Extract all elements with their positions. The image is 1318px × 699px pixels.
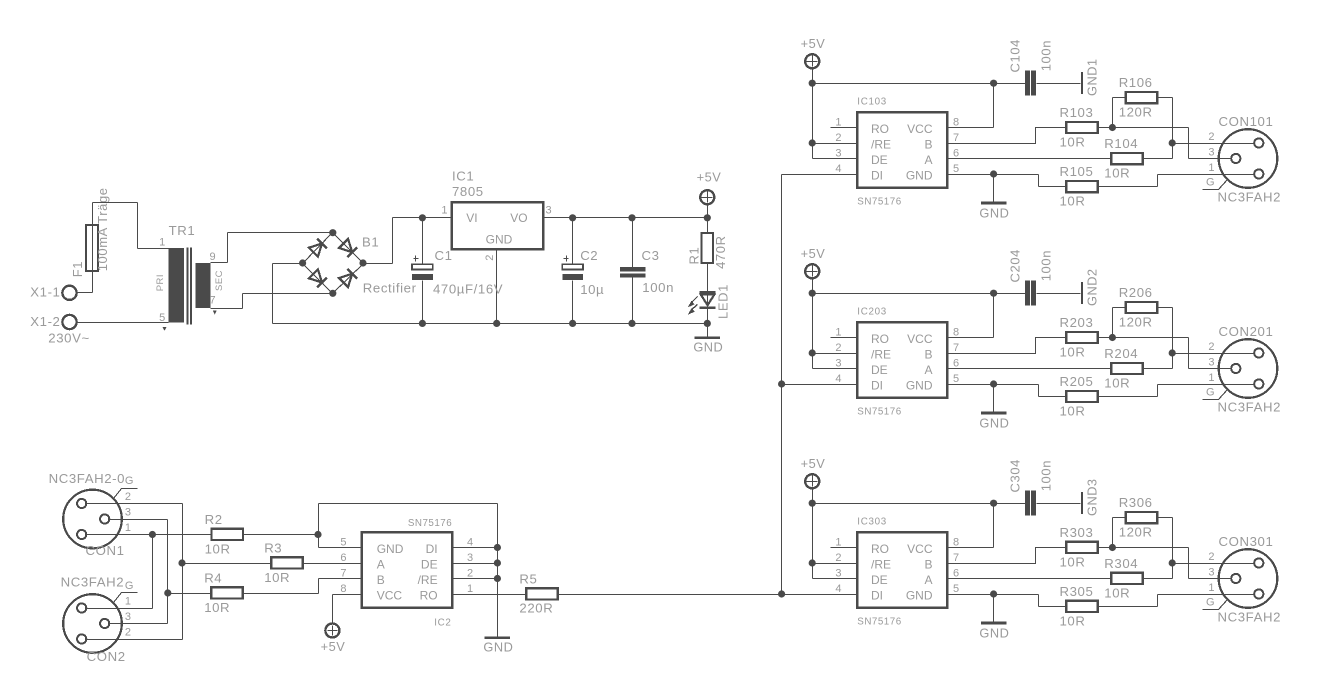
svg-text:GND: GND	[979, 205, 1009, 220]
svg-text:NC3FAH2-0: NC3FAH2-0	[49, 471, 126, 486]
svg-text:6: 6	[953, 357, 959, 369]
svg-text:VCC: VCC	[377, 588, 403, 602]
svg-text:G: G	[1206, 596, 1215, 608]
svg-text:RO: RO	[871, 332, 889, 346]
svg-text:7805: 7805	[452, 184, 484, 199]
svg-text:8: 8	[953, 116, 959, 128]
svg-text:GND: GND	[906, 378, 933, 392]
svg-text:100n: 100n	[1039, 40, 1054, 71]
svg-text:IC303: IC303	[857, 517, 887, 528]
svg-text:R204: R204	[1104, 346, 1138, 361]
svg-text:NC3FAH2: NC3FAH2	[1218, 400, 1282, 415]
svg-text:CON101: CON101	[1219, 114, 1274, 129]
svg-text:10R: 10R	[205, 541, 231, 556]
svg-text:4: 4	[467, 536, 473, 548]
svg-text:/RE: /RE	[871, 347, 891, 361]
svg-text:C204: C204	[1008, 249, 1023, 282]
svg-text:/RE: /RE	[871, 137, 891, 151]
svg-text:SEC: SEC	[214, 270, 225, 291]
svg-text:/RE: /RE	[418, 573, 438, 587]
svg-text:A: A	[924, 573, 932, 587]
svg-text:120R: 120R	[1119, 104, 1153, 119]
svg-text:SN75176: SN75176	[408, 518, 452, 529]
svg-text:100mA Träge: 100mA Träge	[95, 187, 110, 271]
svg-text:F1: F1	[70, 261, 85, 277]
svg-text:C2: C2	[580, 248, 598, 263]
svg-text:NC3FAH2: NC3FAH2	[1218, 610, 1282, 625]
svg-text:9: 9	[210, 251, 216, 263]
svg-text:8: 8	[953, 326, 959, 338]
svg-text:DI: DI	[426, 542, 438, 556]
svg-text:TR1: TR1	[169, 223, 196, 238]
svg-text:NC3FAH2: NC3FAH2	[61, 575, 125, 590]
svg-text:3: 3	[835, 147, 841, 159]
svg-text:10R: 10R	[204, 600, 230, 615]
svg-text:VO: VO	[510, 211, 527, 225]
svg-text:10R: 10R	[1104, 375, 1130, 390]
svg-text:7: 7	[953, 132, 959, 144]
svg-text:DI: DI	[871, 168, 883, 182]
svg-text:R106: R106	[1119, 75, 1153, 90]
svg-text:R206: R206	[1119, 285, 1153, 300]
svg-text:8: 8	[953, 536, 959, 548]
svg-text:G: G	[1206, 386, 1215, 398]
svg-text:1: 1	[1208, 372, 1214, 384]
svg-text:10R: 10R	[264, 570, 290, 585]
svg-text:2: 2	[1208, 551, 1214, 563]
svg-text:470µF/16V: 470µF/16V	[433, 282, 503, 297]
svg-text:6: 6	[953, 567, 959, 579]
svg-text:2: 2	[835, 342, 841, 354]
svg-text:1: 1	[1208, 582, 1214, 594]
svg-text:3: 3	[125, 507, 131, 519]
svg-text:R2: R2	[205, 512, 223, 527]
svg-text:GND: GND	[377, 542, 404, 556]
svg-text:2: 2	[125, 627, 131, 639]
svg-text:1: 1	[835, 116, 841, 128]
svg-text:GND3: GND3	[1085, 478, 1100, 516]
svg-text:2: 2	[125, 491, 131, 503]
svg-text:1: 1	[125, 596, 131, 608]
svg-text:2: 2	[1208, 131, 1214, 143]
svg-text:RO: RO	[871, 542, 889, 556]
svg-text:A: A	[924, 153, 932, 167]
svg-text:B1: B1	[362, 234, 379, 249]
svg-text:Rectifier: Rectifier	[363, 281, 417, 296]
svg-text:RO: RO	[871, 122, 889, 136]
svg-text:10R: 10R	[1060, 344, 1086, 359]
svg-text:CON2: CON2	[87, 649, 126, 664]
svg-text:1: 1	[467, 583, 473, 595]
svg-text:1: 1	[835, 536, 841, 548]
svg-text:GND: GND	[906, 588, 933, 602]
svg-text:100n: 100n	[1039, 250, 1054, 281]
svg-text:5: 5	[953, 373, 959, 385]
svg-text:120R: 120R	[1119, 524, 1153, 539]
svg-text:NC3FAH2: NC3FAH2	[1218, 190, 1282, 205]
svg-text:IC2: IC2	[434, 618, 451, 629]
svg-text:VI: VI	[466, 211, 477, 225]
svg-text:3: 3	[835, 567, 841, 579]
svg-text:+5V: +5V	[801, 36, 826, 51]
svg-text:GND1: GND1	[1085, 58, 1100, 96]
svg-text:X1-2: X1-2	[30, 314, 60, 329]
svg-text:R304: R304	[1104, 556, 1138, 571]
svg-text:7: 7	[210, 294, 216, 306]
svg-text:C1: C1	[435, 248, 453, 263]
svg-text:R3: R3	[264, 540, 282, 555]
svg-text:SN75176: SN75176	[857, 407, 901, 418]
svg-text:CON301: CON301	[1219, 534, 1274, 549]
svg-text:A: A	[377, 557, 385, 571]
svg-text:+5V: +5V	[697, 169, 722, 184]
svg-text:LED1: LED1	[716, 284, 731, 319]
svg-text:R105: R105	[1060, 164, 1094, 179]
svg-text:3: 3	[467, 552, 473, 564]
svg-text:GND: GND	[693, 339, 723, 354]
svg-text:G: G	[125, 580, 134, 592]
svg-text:B: B	[924, 347, 932, 361]
svg-text:R305: R305	[1060, 584, 1094, 599]
svg-text:7: 7	[953, 552, 959, 564]
svg-text:R303: R303	[1060, 525, 1094, 540]
svg-text:2: 2	[1208, 341, 1214, 353]
svg-text:PRI: PRI	[155, 274, 166, 291]
svg-text:220R: 220R	[519, 601, 553, 616]
svg-text:100n: 100n	[642, 280, 674, 295]
svg-text:2: 2	[835, 132, 841, 144]
svg-text:5: 5	[953, 583, 959, 595]
svg-text:4: 4	[835, 373, 841, 385]
svg-text:R1: R1	[687, 247, 702, 265]
svg-text:6: 6	[953, 147, 959, 159]
svg-text:7: 7	[340, 567, 346, 579]
svg-text:VCC: VCC	[907, 122, 933, 136]
svg-text:VCC: VCC	[907, 332, 933, 346]
svg-text:C104: C104	[1008, 39, 1023, 72]
svg-text:+5V: +5V	[321, 639, 346, 654]
svg-text:CON1: CON1	[86, 543, 125, 558]
svg-text:1: 1	[441, 204, 447, 216]
svg-text:3: 3	[125, 611, 131, 623]
svg-text:2: 2	[835, 552, 841, 564]
svg-text:C304: C304	[1008, 459, 1023, 492]
svg-text:230V~: 230V~	[48, 331, 90, 346]
svg-text:10R: 10R	[1060, 613, 1086, 628]
svg-text:SN75176: SN75176	[857, 197, 901, 208]
svg-text:+5V: +5V	[801, 456, 826, 471]
svg-text:B: B	[377, 573, 385, 587]
svg-text:10µ: 10µ	[580, 282, 604, 297]
svg-text:SN75176: SN75176	[857, 617, 901, 628]
svg-text:2: 2	[467, 567, 473, 579]
svg-text:GND2: GND2	[1085, 268, 1100, 306]
svg-text:10R: 10R	[1104, 165, 1130, 180]
svg-text:7: 7	[953, 342, 959, 354]
svg-text:GND: GND	[979, 625, 1009, 640]
svg-text:10R: 10R	[1060, 134, 1086, 149]
svg-text:8: 8	[340, 583, 346, 595]
svg-text:R5: R5	[519, 571, 537, 586]
svg-text:10R: 10R	[1060, 554, 1086, 569]
svg-text:5: 5	[159, 312, 165, 324]
svg-text:1: 1	[1208, 162, 1214, 174]
svg-text:2: 2	[484, 255, 496, 261]
svg-text:IC103: IC103	[857, 97, 887, 108]
svg-text:120R: 120R	[1119, 314, 1153, 329]
svg-text:1: 1	[835, 326, 841, 338]
svg-text:GND: GND	[486, 233, 513, 247]
svg-text:CON201: CON201	[1219, 324, 1274, 339]
svg-text:DE: DE	[871, 363, 888, 377]
svg-text:5: 5	[340, 536, 346, 548]
svg-text:3: 3	[546, 204, 552, 216]
svg-text:G: G	[125, 475, 134, 487]
svg-text:6: 6	[340, 552, 346, 564]
svg-text:R103: R103	[1060, 105, 1094, 120]
svg-text:1: 1	[125, 522, 131, 534]
svg-text:DE: DE	[421, 557, 438, 571]
svg-text:GND: GND	[979, 415, 1009, 430]
svg-text:1: 1	[159, 236, 165, 248]
svg-text:R203: R203	[1060, 315, 1094, 330]
svg-text:RO: RO	[420, 588, 438, 602]
svg-text:4: 4	[835, 583, 841, 595]
svg-text:R205: R205	[1060, 374, 1094, 389]
svg-text:3: 3	[835, 357, 841, 369]
svg-text:IC203: IC203	[857, 307, 887, 318]
svg-text:DE: DE	[871, 573, 888, 587]
svg-text:IC1: IC1	[452, 169, 474, 184]
svg-text:10R: 10R	[1060, 403, 1086, 418]
svg-text:B: B	[924, 137, 932, 151]
svg-text:DI: DI	[871, 378, 883, 392]
svg-text:470R: 470R	[713, 235, 728, 268]
svg-text:3: 3	[1208, 147, 1214, 159]
svg-text:10R: 10R	[1104, 585, 1130, 600]
svg-text:A: A	[924, 363, 932, 377]
svg-text:R306: R306	[1119, 495, 1153, 510]
svg-text:R104: R104	[1104, 136, 1138, 151]
svg-text:5: 5	[953, 163, 959, 175]
svg-text:DI: DI	[871, 588, 883, 602]
svg-text:B: B	[924, 557, 932, 571]
svg-text:G: G	[1206, 176, 1215, 188]
svg-text:C3: C3	[642, 248, 660, 263]
svg-text:3: 3	[1208, 357, 1214, 369]
svg-text:R4: R4	[204, 570, 222, 585]
svg-text:GND: GND	[483, 639, 513, 654]
svg-text:VCC: VCC	[907, 542, 933, 556]
svg-text:/RE: /RE	[871, 557, 891, 571]
svg-text:GND: GND	[906, 168, 933, 182]
svg-text:+5V: +5V	[801, 246, 826, 261]
svg-text:100n: 100n	[1039, 460, 1054, 491]
svg-text:10R: 10R	[1060, 193, 1086, 208]
svg-text:DE: DE	[871, 153, 888, 167]
svg-text:4: 4	[835, 163, 841, 175]
svg-text:X1-1: X1-1	[30, 285, 60, 300]
svg-text:3: 3	[1208, 567, 1214, 579]
